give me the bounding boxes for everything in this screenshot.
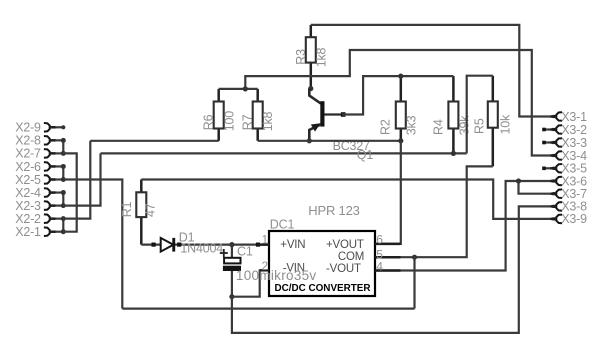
resistor R1 47 <box>120 180 157 245</box>
svg-text:X2-5: X2-5 <box>15 173 41 187</box>
wire R4 bottom over-the-top link to R5 top <box>467 76 493 154</box>
connector pin X2-5 <box>15 173 63 187</box>
wire R3 top to X3-1 <box>311 25 556 117</box>
svg-text:3k3: 3k3 <box>404 115 418 135</box>
connector pin X3-5 <box>542 162 587 176</box>
diode D1 1N4004 <box>161 231 224 256</box>
pin number 2 (-VIN) <box>262 259 269 273</box>
svg-text:X2-3: X2-3 <box>15 199 41 213</box>
resistor R7 1k8 <box>241 89 275 141</box>
wire C1 bottom to X3-8 via bottom rail <box>232 206 556 333</box>
svg-text:-VOUT: -VOUT <box>326 263 361 275</box>
connector pin X2-7 <box>15 147 63 161</box>
resistor R5 10k <box>472 76 512 167</box>
resistor R4 39k <box>431 76 471 153</box>
wire X2-8 to X2-7 pair link <box>61 138 66 156</box>
svg-text:X2-8: X2-8 <box>15 134 41 148</box>
svg-text:R4: R4 <box>431 119 445 135</box>
svg-text:DC/DC CONVERTER: DC/DC CONVERTER <box>274 283 370 294</box>
connector pin X2-2 <box>15 212 63 226</box>
svg-text:+VOUT: +VOUT <box>326 239 364 251</box>
svg-text:R6: R6 <box>202 114 216 130</box>
svg-text:X3-2: X3-2 <box>561 123 587 137</box>
connector pin X3-6 <box>551 174 588 188</box>
svg-text:X2-1: X2-1 <box>15 225 41 239</box>
wire X2-7 net down to X2-1 row <box>63 153 76 231</box>
pin number 1 (+VIN) <box>262 232 269 246</box>
pin number 4 (-VOUT) <box>376 260 383 274</box>
wire X2-5 descent to common bottom rail <box>63 180 122 309</box>
wire -VOUT pin to X3-6 <box>375 181 556 271</box>
wire R6/R7 top rail <box>219 88 258 90</box>
svg-text:R5: R5 <box>472 118 486 134</box>
svg-text:X3-9: X3-9 <box>561 212 587 226</box>
resistor R2 3k3 <box>378 76 418 141</box>
svg-text:X2-6: X2-6 <box>15 160 41 174</box>
IC DC1 HPR 123 DC/DC converter <box>259 203 401 296</box>
junction R2 bottom <box>398 138 403 143</box>
pin number 6 (+VOUT) <box>376 232 383 246</box>
connector pin X3-4 <box>551 149 588 163</box>
svg-text:R3: R3 <box>294 49 308 65</box>
junction C1 top / +VIN node <box>229 242 234 247</box>
svg-text:1k8: 1k8 <box>315 47 329 67</box>
junction R6/R7 top <box>243 86 248 91</box>
wire input rail R1 top to X3-9 <box>141 180 556 219</box>
svg-text:1k8: 1k8 <box>261 111 275 131</box>
svg-text:R1: R1 <box>120 201 134 217</box>
junction X3-6 branch <box>516 178 521 183</box>
wire R5 bottom to COM <box>415 166 493 257</box>
connector pin X3-2 <box>542 123 587 137</box>
svg-text:X2-7: X2-7 <box>15 147 41 161</box>
svg-text:+VIN: +VIN <box>280 239 305 251</box>
connector pin X2-4 <box>15 186 63 200</box>
junction X2-9 stub end <box>61 125 65 129</box>
junction R2 top <box>398 74 403 79</box>
resistor R6 100 <box>202 89 237 141</box>
wire base riser to R2 top rail <box>342 76 453 114</box>
svg-text:1N4004: 1N4004 <box>180 242 223 256</box>
transistor Q1 BC327 (PNP) <box>309 89 373 162</box>
wire COM pin stub <box>375 256 415 258</box>
wire X2-2 riser to net-A rail <box>63 141 90 219</box>
connector pin X2-1 <box>15 225 63 239</box>
wire X2-3 riser to feedback rail <box>63 153 100 205</box>
svg-text:6: 6 <box>376 232 383 246</box>
svg-text:4: 4 <box>376 260 383 274</box>
svg-text:X3-3: X3-3 <box>561 136 587 150</box>
wire X3-6 to X3-7 drop <box>519 181 556 194</box>
connector pin X3-1 <box>551 110 588 124</box>
svg-text:X2-2: X2-2 <box>15 212 41 226</box>
svg-text:100mikro35v: 100mikro35v <box>236 268 317 283</box>
svg-text:1: 1 <box>262 232 269 246</box>
wire net-A rail to R6 bottom <box>90 140 218 142</box>
svg-text:X3-1: X3-1 <box>561 110 587 124</box>
wire R6/R7 net staircase to X3-4 <box>245 50 556 156</box>
wire -VIN pin to C1 bottom node <box>232 270 269 296</box>
svg-text:R7: R7 <box>241 114 255 130</box>
svg-text:C1: C1 <box>237 245 253 259</box>
svg-text:X2-4: X2-4 <box>15 186 41 200</box>
connector pin X2-9 <box>15 121 64 135</box>
capacitor C1 100mikro35v (polarized) <box>220 245 253 297</box>
connector pin X3-7 <box>551 187 588 201</box>
svg-text:Q1: Q1 <box>357 148 374 162</box>
connector pin X2-8 <box>15 134 63 148</box>
wire R1 bottom / D1 / +VIN rail <box>141 243 269 247</box>
svg-text:39k: 39k <box>457 115 471 136</box>
pin number 5 (COM) <box>376 248 383 262</box>
svg-text:R2: R2 <box>378 119 392 135</box>
label C1 value 100mikro35v <box>236 268 317 283</box>
junction C1 bottom / -VIN node <box>229 294 234 299</box>
wire X2-4 to X2-3 pair link <box>61 190 66 208</box>
wire feedback rail to R4 bottom <box>101 152 467 154</box>
connector pin X3-9 <box>551 212 588 226</box>
wire emitter rail R7 to R2 <box>258 140 401 142</box>
svg-text:47: 47 <box>144 203 158 217</box>
wire R2 bottom to +VOUT pin <box>375 141 401 244</box>
junction emitter on rail <box>307 138 312 143</box>
wire common bottom rail <box>122 308 414 310</box>
svg-text:DC1: DC1 <box>270 218 295 232</box>
junction R3 bottom / collector <box>308 86 313 91</box>
svg-text:100: 100 <box>222 111 236 132</box>
connector pin X3-3 <box>542 136 587 150</box>
svg-text:X2-9: X2-9 <box>15 121 41 135</box>
junction COM node <box>412 255 417 260</box>
wire COM node descent to common rail <box>413 257 415 308</box>
connector pin X2-3 <box>15 199 63 213</box>
wire X2-2 to X2-1 pair link <box>61 216 66 234</box>
svg-text:COM: COM <box>338 251 364 263</box>
connector pin X2-6 <box>15 160 63 174</box>
junction R4 bottom <box>451 151 456 156</box>
wire X2-6 to X2-5 pair link <box>61 164 66 182</box>
svg-text:10k: 10k <box>498 114 512 135</box>
svg-text:HPR 123: HPR 123 <box>308 203 359 218</box>
resistor R3 1k8 <box>294 25 328 89</box>
connector pin X3-8 <box>551 200 588 214</box>
